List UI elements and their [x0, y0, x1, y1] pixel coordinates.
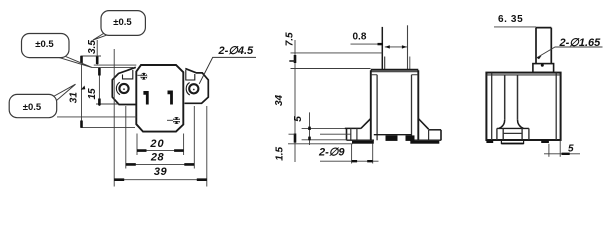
svg-text:±0.5: ±0.5 — [113, 17, 132, 28]
balloon3 tail arrowhead — [81, 86, 86, 90]
left foot block — [345, 127, 361, 129]
svg-text:±0.5: ±0.5 — [23, 102, 42, 113]
ext body top — [291, 68, 371, 70]
screw top-left — [138, 73, 148, 80]
view 3 dims — [494, 27, 603, 157]
right ear hole arc — [186, 83, 190, 96]
svg-text:2-∅9: 2-∅9 — [318, 147, 345, 159]
ext line body top — [94, 64, 137, 66]
2-Ø9 dim line — [320, 160, 379, 162]
ext base bottom — [302, 139, 347, 141]
ext lines bottom — [136, 134, 138, 156]
blade flat — [536, 28, 551, 64]
body outer rect — [486, 73, 560, 140]
inner wall lines — [492, 73, 557, 140]
blade collar — [533, 64, 554, 73]
ext line y=116.8 — [57, 116, 137, 118]
right hole center marks — [193, 89, 195, 91]
6.35 leader — [494, 26, 536, 28]
core columns — [505, 75, 518, 120]
base bottom lines — [347, 139, 442, 141]
flange flare diagonals — [361, 119, 429, 130]
dim line 20 — [137, 150, 184, 152]
foot shoulder — [497, 127, 529, 129]
left ear notch — [123, 70, 133, 79]
left hole center marks — [123, 88, 125, 90]
view 2 dims — [288, 40, 407, 164]
5 dim line — [544, 153, 580, 155]
left ear hole — [119, 84, 128, 93]
ext foot top — [302, 127, 345, 129]
blade right — [407, 25, 409, 70]
0.8 leader — [351, 43, 383, 45]
svg-text:±0.5: ±0.5 — [35, 39, 54, 50]
0.8 arrow — [385, 46, 407, 48]
right ear notch — [186, 70, 195, 80]
dim 5 line — [309, 112, 311, 145]
2-Ø9 ext lines — [351, 144, 353, 164]
terminal 1 left — [143, 91, 148, 105]
right mounting ear — [185, 69, 209, 104]
dim 15 line — [98, 67, 100, 106]
5 ext lines — [548, 144, 550, 157]
left pad — [486, 140, 493, 143]
dim line 39 — [114, 179, 207, 181]
base center line — [374, 134, 412, 136]
ext pad bottom — [288, 143, 353, 145]
right foot block — [429, 129, 441, 131]
svg-text:20: 20 — [149, 138, 164, 150]
right ear hole — [189, 84, 198, 93]
ext line ear bottom — [96, 103, 119, 105]
blade hole — [541, 64, 544, 67]
svg-text:6. 35: 6. 35 — [498, 14, 523, 25]
terminal 1 right — [167, 91, 172, 105]
svg-text:31: 31 — [68, 92, 79, 104]
dim line 28 — [126, 163, 195, 165]
right pad — [541, 140, 549, 143]
body outline octagon — [136, 65, 183, 132]
foot pads — [352, 141, 374, 144]
svg-text:15: 15 — [87, 88, 98, 100]
svg-text:2-∅1.65: 2-∅1.65 — [559, 37, 602, 49]
ext line y=127.6 — [81, 127, 136, 129]
ext line y=56 — [81, 55, 102, 57]
svg-text:0.8: 0.8 — [353, 31, 367, 42]
svg-text:3.5: 3.5 — [87, 40, 98, 54]
ext line ear attach — [92, 66, 133, 68]
center nubs — [386, 135, 398, 141]
cap second line — [372, 71, 418, 73]
balloon bottom-left (±0.5) — [9, 84, 75, 118]
svg-text:7.5: 7.5 — [284, 32, 295, 46]
svg-text:2-∅4.5: 2-∅4.5 — [218, 45, 255, 57]
foot flare curves — [499, 120, 524, 129]
dim 31 line — [81, 56, 83, 128]
ext collar line — [291, 52, 383, 54]
svg-text:39: 39 — [154, 166, 168, 178]
center pad — [501, 140, 523, 144]
svg-text:28: 28 — [150, 152, 165, 164]
screw bottom-right — [167, 117, 180, 124]
left mounting ear — [112, 67, 136, 104]
body cap top — [371, 69, 419, 71]
left stack vertical — [294, 40, 296, 162]
foot box — [497, 128, 529, 139]
2-Ø1.65 leader — [537, 47, 602, 58]
balloon mid-left (±0.5) — [22, 34, 93, 68]
svg-text:1.5: 1.5 — [274, 146, 285, 160]
svg-text:5: 5 — [568, 143, 574, 154]
balloon top (±0.5) — [93, 11, 145, 40]
foot mid line — [503, 132, 522, 134]
blade left — [381, 27, 383, 71]
label 2-Ø4.5 with leader — [199, 45, 256, 84]
body inner walls — [377, 75, 411, 140]
dim 3.5 line — [96, 40, 98, 65]
svg-text:5: 5 — [293, 116, 304, 122]
view 1 left dims — [57, 40, 137, 128]
left ear hole arc — [116, 82, 120, 95]
body outer walls — [371, 70, 419, 140]
view 1 dimensions — [114, 49, 207, 187]
svg-text:34: 34 — [274, 94, 285, 106]
cap bottom edges — [371, 74, 419, 76]
